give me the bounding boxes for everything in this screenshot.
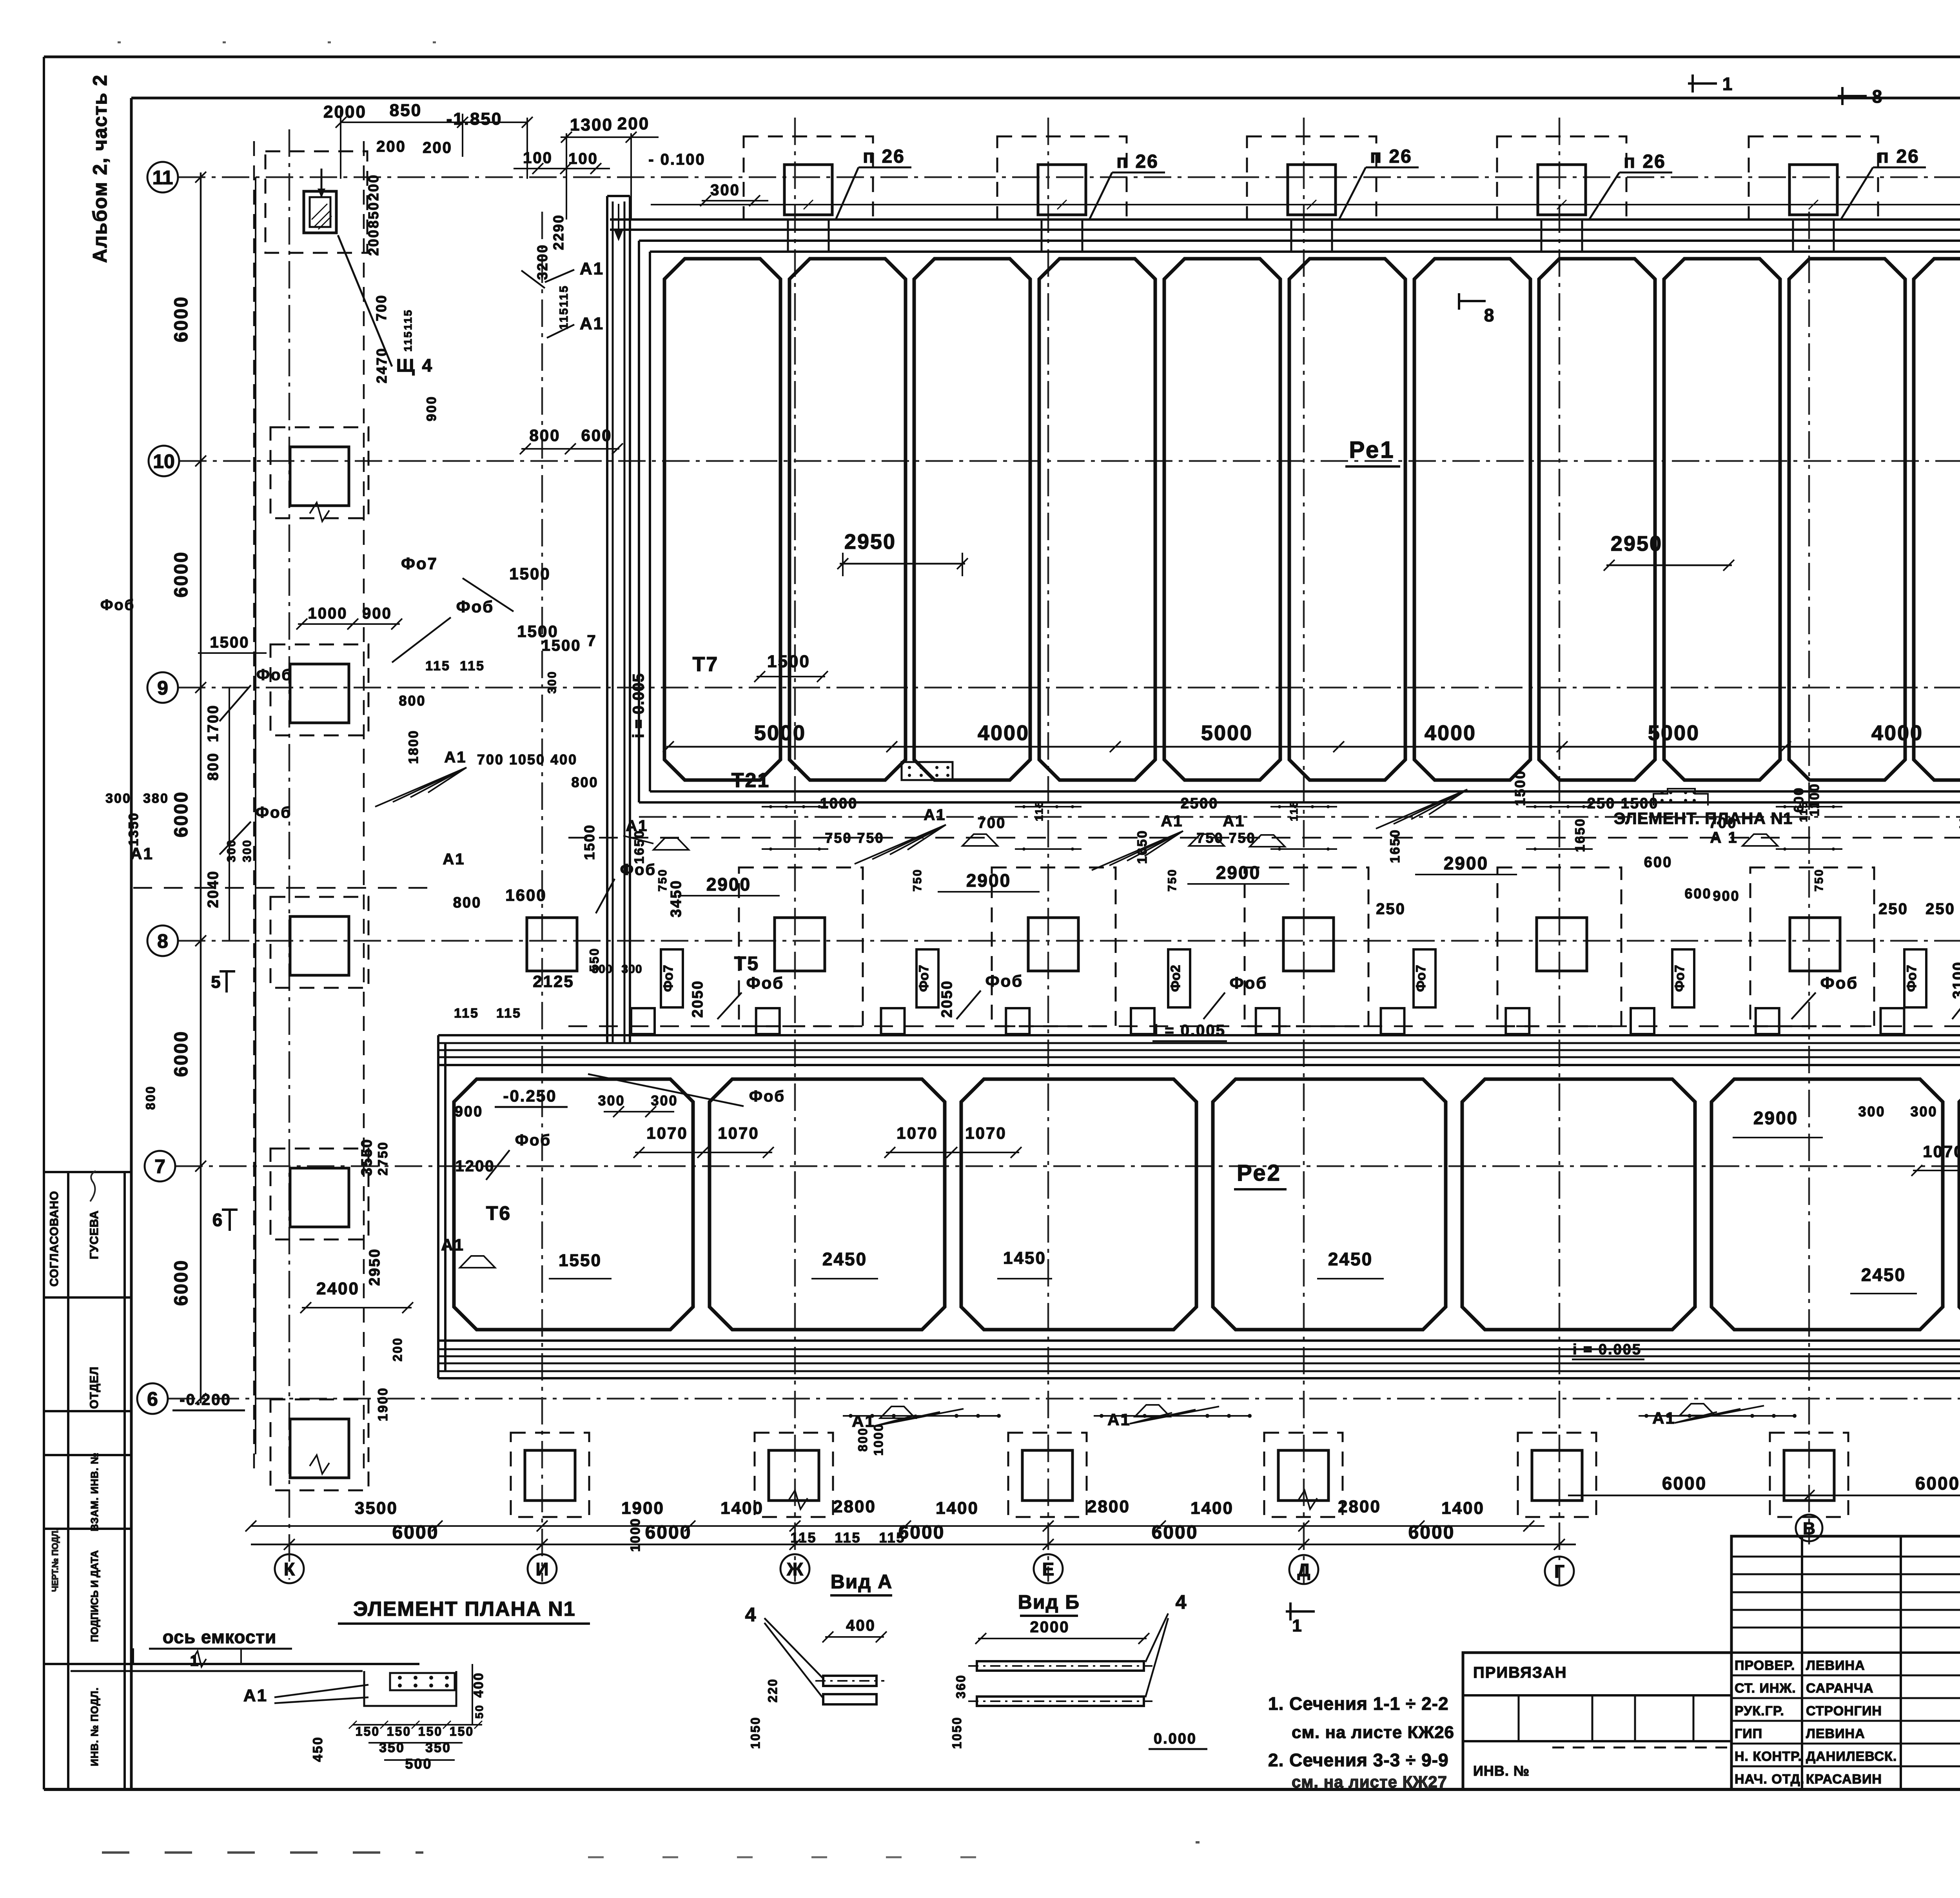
svg-text:1. Сечения 1-1 ÷ 2-2: 1. Сечения 1-1 ÷ 2-2 <box>1268 1693 1449 1714</box>
svg-text:700 1050 400: 700 1050 400 <box>477 751 577 768</box>
svg-text:3100: 3100 <box>1950 961 1960 999</box>
svg-text:3200: 3200 <box>534 244 550 280</box>
drawing frame left edge <box>130 98 133 1789</box>
column П26 #1 dashed pad <box>744 136 873 220</box>
svg-text:2800: 2800 <box>1087 1497 1130 1516</box>
svg-text:1650: 1650 <box>1573 818 1588 852</box>
svg-text:РУК.ГР.: РУК.ГР. <box>1735 1704 1784 1718</box>
svg-text:2050: 2050 <box>939 980 955 1018</box>
axis Г line <box>1559 118 1561 1586</box>
svg-text:250: 250 <box>1878 900 1908 918</box>
svg-text:Ре1: Ре1 <box>1349 437 1395 463</box>
Re2 bottom band <box>438 1339 1960 1342</box>
svg-text:700: 700 <box>373 294 389 321</box>
wall tab 10 <box>1756 1008 1779 1034</box>
svg-text:1350: 1350 <box>126 812 141 846</box>
row9 tick-dot rows <box>762 806 828 807</box>
svg-text:2450: 2450 <box>1328 1249 1373 1269</box>
sheet outer border top edge <box>44 56 1960 58</box>
svg-text:2800: 2800 <box>1338 1497 1381 1516</box>
bottom pad column #5 <box>1518 1433 1596 1517</box>
svg-text:115: 115 <box>1797 801 1809 822</box>
wall tab 3 <box>881 1008 905 1034</box>
svg-text:1070: 1070 <box>718 1124 759 1142</box>
svg-text:4000: 4000 <box>1871 721 1923 745</box>
Re1 cell 8 <box>1539 259 1655 780</box>
foundation box Фо7 <box>916 949 938 1007</box>
wall tab 5 <box>1131 1008 1154 1034</box>
bottom pad column #6 <box>1770 1433 1848 1517</box>
svg-text:100: 100 <box>568 150 598 167</box>
svg-text:И: И <box>535 1559 548 1579</box>
svg-text:1600: 1600 <box>505 886 546 904</box>
foundation box Фо7 <box>1672 949 1694 1007</box>
pad break marks <box>310 503 329 521</box>
Re2 cell 1 <box>454 1079 693 1330</box>
svg-text:1550: 1550 <box>559 1251 602 1270</box>
svg-text:8: 8 <box>1484 305 1495 325</box>
Re2 cell 6 <box>1711 1079 1943 1330</box>
svg-text:1000: 1000 <box>820 795 858 812</box>
svg-text:ось емкости: ось емкости <box>163 1627 276 1647</box>
wall tab 2 <box>756 1008 780 1034</box>
svg-text:А1: А1 <box>580 259 604 278</box>
svg-text:А1: А1 <box>441 1236 465 1254</box>
svg-text:см. на листе КЖ27: см. на листе КЖ27 <box>1292 1773 1447 1791</box>
column П26 #5 dashed pad <box>1749 136 1878 220</box>
axis К line <box>289 129 290 1580</box>
svg-text:1070: 1070 <box>1923 1142 1960 1161</box>
svg-text:300: 300 <box>710 181 740 199</box>
view B bars <box>977 1661 1144 1671</box>
svg-text:2950: 2950 <box>1611 532 1662 555</box>
svg-text:А1: А1 <box>580 314 604 333</box>
svg-text:1500: 1500 <box>542 637 581 654</box>
svg-text:К: К <box>284 1559 295 1579</box>
svg-text:2800: 2800 <box>833 1497 876 1516</box>
svg-text:200: 200 <box>365 229 381 256</box>
svg-text:6000: 6000 <box>171 1259 192 1306</box>
svg-text:200: 200 <box>617 114 650 133</box>
svg-text:САРАНЧА: САРАНЧА <box>1806 1681 1874 1696</box>
svg-text:900: 900 <box>455 1103 483 1120</box>
svg-text:400: 400 <box>471 1672 486 1698</box>
Re2 left wall <box>437 1035 439 1378</box>
axis 9 circle <box>147 672 178 703</box>
svg-text:А1: А1 <box>443 851 465 868</box>
mid dash-dot line under Re1 <box>639 816 1960 818</box>
svg-text:800: 800 <box>205 752 221 780</box>
column П26 #1 <box>784 165 832 215</box>
title block left table verticals <box>1801 1536 1803 1789</box>
left dimension chain line <box>200 172 202 1403</box>
wall tab 11 <box>1881 1008 1904 1034</box>
svg-text:Фоб: Фоб <box>456 597 494 616</box>
svg-text:Фо7: Фо7 <box>1672 965 1687 992</box>
view A bars <box>823 1676 877 1686</box>
svg-text:Фо7: Фо7 <box>661 965 676 992</box>
svg-text:1450: 1450 <box>1003 1248 1046 1268</box>
svg-text:2125: 2125 <box>533 972 574 991</box>
mid column square axis8 #5 <box>1537 918 1587 971</box>
svg-text:115: 115 <box>835 1530 861 1546</box>
svg-text:2450: 2450 <box>1861 1265 1906 1285</box>
svg-text:900: 900 <box>1713 888 1740 904</box>
svg-text:Фоб: Фоб <box>749 1088 785 1105</box>
section mark 1 bottom <box>1289 1602 1292 1620</box>
svg-text:6000: 6000 <box>392 1522 439 1543</box>
Re1 cell 6 <box>1289 259 1405 780</box>
element Щ4 square <box>304 191 336 233</box>
svg-text:Н. КОНТР.: Н. КОНТР. <box>1735 1749 1802 1764</box>
svg-text:5: 5 <box>211 973 221 992</box>
axis 6 circle <box>137 1383 168 1414</box>
svg-text:360: 360 <box>954 1674 968 1698</box>
svg-text:А1: А1 <box>243 1686 268 1705</box>
svg-text:850: 850 <box>365 201 381 228</box>
element plan drawing <box>71 1663 419 1665</box>
Re1 cell 10 <box>1789 259 1905 780</box>
svg-text:115: 115 <box>496 1006 521 1021</box>
column П26 #5 <box>1789 165 1837 215</box>
axis 11 circle <box>147 162 178 192</box>
svg-text:7: 7 <box>587 632 597 650</box>
svg-text:115: 115 <box>425 659 450 673</box>
svg-text:Е: Е <box>1042 1559 1054 1579</box>
svg-text:ИНВ. № ПОДЛ.: ИНВ. № ПОДЛ. <box>89 1687 100 1766</box>
bottom pad column #1 <box>511 1433 589 1517</box>
axis 10 line <box>179 460 1960 462</box>
svg-text:2. Сечения 3-3 ÷ 9-9: 2. Сечения 3-3 ÷ 9-9 <box>1268 1750 1449 1770</box>
svg-text:1070: 1070 <box>897 1124 938 1142</box>
svg-text:1200: 1200 <box>456 1158 495 1175</box>
svg-text:Т6: Т6 <box>486 1202 511 1224</box>
bottom A1 leaders <box>880 1406 915 1418</box>
svg-text:ЭЛЕМЕНТ. ПЛАНА N1: ЭЛЕМЕНТ. ПЛАНА N1 <box>1614 809 1793 827</box>
svg-text:150: 150 <box>418 1724 443 1738</box>
svg-text:3450: 3450 <box>668 880 684 918</box>
Re2 top band <box>438 1034 1960 1036</box>
section mark 1 top <box>1691 74 1694 93</box>
svg-text:300: 300 <box>105 791 131 806</box>
title block staff rows <box>1731 1675 1960 1677</box>
mid dashed box 5 <box>1750 867 1874 1026</box>
svg-text:0.000: 0.000 <box>1154 1731 1197 1747</box>
svg-text:6000: 6000 <box>1915 1473 1960 1493</box>
svg-text:2450: 2450 <box>822 1249 867 1269</box>
mid dashed box 2 <box>992 867 1116 1026</box>
svg-text:115: 115 <box>402 309 414 330</box>
mid dashed box 3 <box>1245 867 1368 1026</box>
svg-text:1400: 1400 <box>1441 1499 1485 1518</box>
svg-text:1500: 1500 <box>210 634 250 651</box>
title block mini rows <box>1731 1556 1960 1558</box>
Re2 cell 7 <box>1959 1079 1960 1330</box>
mid column square axis8 #1 <box>527 918 577 971</box>
Re2 cell 3 <box>961 1079 1196 1330</box>
svg-text:115: 115 <box>460 659 485 673</box>
svg-text:А1: А1 <box>444 749 466 766</box>
svg-text:150: 150 <box>356 1724 380 1738</box>
svg-text:2400: 2400 <box>316 1279 359 1298</box>
mid dashed box 1 <box>739 867 863 1026</box>
svg-text:1500: 1500 <box>509 564 550 583</box>
svg-text:1900: 1900 <box>621 1499 664 1518</box>
left pad #3 <box>270 897 368 988</box>
left margin stamp column <box>67 1172 69 1789</box>
svg-text:6000: 6000 <box>171 791 192 838</box>
svg-text:Вид Б: Вид Б <box>1018 1591 1080 1613</box>
svg-text:п 26: п 26 <box>1624 151 1666 172</box>
svg-text:2040: 2040 <box>205 870 221 908</box>
svg-text:А1: А1 <box>1107 1410 1131 1429</box>
svg-text:115: 115 <box>402 330 414 352</box>
Re1 cell 2 <box>789 259 906 780</box>
svg-text:115: 115 <box>454 1006 479 1021</box>
svg-text:300: 300 <box>1858 1103 1885 1120</box>
svg-text:800: 800 <box>453 895 481 911</box>
bottom pad column #2 <box>755 1433 833 1517</box>
bottom pad column #3 <box>1008 1433 1087 1517</box>
wall tab 6 <box>1256 1008 1279 1034</box>
svg-text:СОГЛАСОВАНО: СОГЛАСОВАНО <box>48 1191 61 1287</box>
svg-text:Фоб: Фоб <box>1230 974 1267 992</box>
svg-text:- 0.100: - 0.100 <box>648 151 706 168</box>
left zone dashed verticals <box>253 141 255 1474</box>
svg-text:6000: 6000 <box>645 1522 692 1543</box>
svg-text:5000: 5000 <box>1648 721 1700 745</box>
svg-text:115: 115 <box>790 1530 817 1546</box>
svg-text:800: 800 <box>399 693 426 709</box>
svg-text:150: 150 <box>450 1724 474 1738</box>
svg-text:2290: 2290 <box>550 214 566 250</box>
svg-text:А1: А1 <box>1161 813 1183 830</box>
svg-text:300: 300 <box>621 963 642 976</box>
svg-text:200: 200 <box>390 1337 405 1361</box>
margin signature squiggle <box>90 1171 96 1201</box>
svg-text:ОТДЕЛ: ОТДЕЛ <box>88 1366 101 1409</box>
svg-text:1: 1 <box>1722 74 1734 94</box>
svg-text:750: 750 <box>911 868 924 891</box>
svg-text:250: 250 <box>1376 900 1406 918</box>
svg-text:ЛЕВИНА: ЛЕВИНА <box>1806 1726 1865 1741</box>
left pad #5 <box>270 1399 368 1490</box>
svg-text:п 26: п 26 <box>863 146 905 167</box>
column П26 #3 <box>1288 165 1336 215</box>
column П26 #2 <box>1038 165 1086 215</box>
svg-text:500: 500 <box>405 1756 432 1772</box>
Re2 cell 5 <box>1462 1079 1695 1330</box>
svg-text:Ж: Ж <box>786 1559 803 1579</box>
svg-text:4000: 4000 <box>1425 721 1476 745</box>
svg-text:600: 600 <box>1644 854 1672 871</box>
axis circle Е <box>1034 1554 1063 1583</box>
svg-text:1900: 1900 <box>376 1387 390 1421</box>
axis 7 line <box>175 1165 1960 1167</box>
svg-text:6: 6 <box>147 1388 158 1410</box>
svg-text:200: 200 <box>365 174 381 201</box>
svg-text:300: 300 <box>651 1092 678 1109</box>
svg-text:ГИП: ГИП <box>1735 1726 1762 1741</box>
svg-text:i = 0.005: i = 0.005 <box>1573 1341 1642 1358</box>
svg-text:1400: 1400 <box>936 1499 979 1518</box>
section mark 8 top <box>1841 87 1844 105</box>
svg-text:Фоб: Фоб <box>256 804 292 821</box>
svg-text:6000: 6000 <box>1408 1522 1455 1543</box>
svg-text:800: 800 <box>529 426 560 445</box>
svg-text:300: 300 <box>241 839 254 862</box>
left pad #4 <box>270 1149 368 1239</box>
left pad #2 <box>270 644 368 735</box>
axis circle Ж <box>780 1554 809 1583</box>
foundation box Фо7 <box>661 949 683 1007</box>
element plan step with anchor plate <box>364 1671 456 1706</box>
svg-text:Фо7: Фо7 <box>1904 965 1919 992</box>
svg-text:2470: 2470 <box>374 347 390 383</box>
svg-text:300: 300 <box>598 1092 625 1109</box>
svg-text:А1: А1 <box>626 817 648 835</box>
axis 11 line <box>178 176 1960 178</box>
A1 leader fans bottom row <box>874 1415 916 1426</box>
Re1 cell 7 <box>1414 259 1530 780</box>
svg-text:1700: 1700 <box>205 704 221 742</box>
svg-text:300: 300 <box>546 670 559 693</box>
bottom dimension chain G-A <box>1568 1495 1960 1497</box>
svg-text:2500: 2500 <box>1181 795 1219 812</box>
section mark 8 inner <box>1459 300 1486 302</box>
svg-text:300: 300 <box>1910 1103 1937 1120</box>
mid column square axis8 #3 <box>1028 918 1078 971</box>
svg-text:6: 6 <box>212 1210 224 1230</box>
svg-text:Фо7: Фо7 <box>916 965 931 992</box>
svg-text:1070: 1070 <box>965 1124 1006 1142</box>
svg-text:6000: 6000 <box>171 1031 192 1077</box>
svg-text:Ре2: Ре2 <box>1237 1160 1281 1186</box>
svg-text:1400: 1400 <box>720 1499 764 1518</box>
column П26 #4 <box>1538 165 1586 215</box>
svg-text:А1: А1 <box>1223 813 1245 830</box>
axis circle В <box>1796 1515 1822 1541</box>
svg-text:-0.250: -0.250 <box>503 1087 557 1105</box>
axis circle Г <box>1545 1557 1574 1586</box>
sheet outer border left edge <box>43 57 45 1789</box>
dotted anchor element <box>902 762 953 780</box>
svg-text:-0.200: -0.200 <box>180 1391 231 1408</box>
Re1 cell 1 <box>664 259 780 780</box>
svg-text:1400: 1400 <box>1191 1499 1234 1518</box>
svg-text:150: 150 <box>387 1724 411 1738</box>
svg-text:i = 0.005: i = 0.005 <box>630 673 647 738</box>
Re1 dash-dot mid line <box>666 746 1960 748</box>
svg-text:115: 115 <box>1033 800 1045 821</box>
svg-text:5000: 5000 <box>1201 721 1253 745</box>
svg-text:400: 400 <box>846 1617 876 1634</box>
svg-text:1070: 1070 <box>646 1124 688 1142</box>
svg-text:СТ. ИНЖ.: СТ. ИНЖ. <box>1735 1681 1796 1696</box>
svg-text:4000: 4000 <box>978 721 1029 745</box>
axis И line <box>541 212 543 1582</box>
svg-text:2950: 2950 <box>844 530 896 553</box>
svg-text:900: 900 <box>362 605 392 622</box>
svg-text:Фо7: Фо7 <box>1414 965 1428 992</box>
wall tab 1 <box>631 1008 655 1034</box>
left channel <box>606 196 608 1043</box>
A1 trapezoids mid strip <box>653 838 689 850</box>
svg-text:НАЧ. ОТД.: НАЧ. ОТД. <box>1735 1772 1804 1787</box>
axis Д line <box>1303 118 1305 1584</box>
svg-text:750: 750 <box>1166 868 1179 891</box>
foundation box Фо7 <box>1414 949 1436 1007</box>
scan noise bottom dashes <box>102 1851 423 1854</box>
svg-text:1650: 1650 <box>1388 829 1403 863</box>
svg-text:600: 600 <box>1684 885 1711 902</box>
svg-text:380: 380 <box>143 791 169 806</box>
svg-text:ЭЛЕМЕНТ ПЛАНА N1: ЭЛЕМЕНТ ПЛАНА N1 <box>353 1598 575 1620</box>
axis circle Д <box>1289 1555 1318 1584</box>
svg-text:1300: 1300 <box>570 115 613 134</box>
svg-text:1000: 1000 <box>308 605 348 622</box>
left pad #1 <box>270 427 368 518</box>
column П26 #4 dashed pad <box>1497 136 1626 220</box>
svg-text:А1: А1 <box>1652 1409 1676 1427</box>
svg-text:Фоб: Фоб <box>985 972 1023 990</box>
svg-text:1800: 1800 <box>406 729 421 764</box>
foundation box Фо7 <box>1904 949 1926 1007</box>
svg-text:4: 4 <box>745 1604 757 1626</box>
Re1 cell 4 <box>1039 259 1155 780</box>
svg-text:ДАНИЛЕВСК.: ДАНИЛЕВСК. <box>1806 1749 1897 1764</box>
mid column square axis8 #2 <box>775 918 825 971</box>
svg-text:Альбом 2, часть 2: Альбом 2, часть 2 <box>89 74 111 263</box>
svg-text:см. на листе КЖ26: см. на листе КЖ26 <box>1292 1723 1454 1742</box>
svg-text:1500: 1500 <box>1512 770 1528 806</box>
svg-text:800: 800 <box>856 1427 870 1452</box>
left zone dashed line <box>133 887 435 889</box>
svg-text:115: 115 <box>879 1530 905 1546</box>
svg-text:Фо2: Фо2 <box>1168 965 1183 992</box>
svg-text:2050: 2050 <box>690 980 706 1018</box>
tank block Re1 outer walls <box>639 240 1960 242</box>
privyazan box <box>1463 1653 1731 1789</box>
svg-text:Д: Д <box>1298 1560 1310 1580</box>
svg-text:СТРОНГИН: СТРОНГИН <box>1806 1704 1882 1718</box>
svg-text:5000: 5000 <box>754 721 806 745</box>
mid column square axis8 #6 <box>1790 918 1840 971</box>
svg-text:i = 0.005: i = 0.005 <box>1154 1022 1226 1039</box>
svg-text:А 1: А 1 <box>1710 829 1738 846</box>
svg-text:8: 8 <box>157 930 168 952</box>
svg-text:2750: 2750 <box>376 1141 390 1176</box>
svg-text:250: 250 <box>1926 900 1955 918</box>
svg-text:50: 50 <box>473 1704 485 1718</box>
top wall dimension line <box>651 204 1960 205</box>
wall tab 7 <box>1381 1008 1405 1034</box>
axis circle К <box>275 1554 304 1583</box>
svg-text:8: 8 <box>1872 86 1884 107</box>
wall tab 8 <box>1506 1008 1529 1034</box>
svg-text:Т5: Т5 <box>734 953 759 974</box>
svg-text:2950: 2950 <box>367 1248 383 1286</box>
top exterior wall <box>610 218 1960 221</box>
svg-text:1050: 1050 <box>950 1716 964 1749</box>
svg-text:3550: 3550 <box>359 1138 375 1176</box>
svg-text:6000: 6000 <box>171 551 192 598</box>
svg-text:115: 115 <box>1288 800 1300 821</box>
svg-text:2900: 2900 <box>1753 1108 1798 1128</box>
svg-text:750: 750 <box>1813 868 1826 891</box>
axis 7 circle <box>145 1151 175 1181</box>
wall tab 4 <box>1006 1008 1029 1034</box>
